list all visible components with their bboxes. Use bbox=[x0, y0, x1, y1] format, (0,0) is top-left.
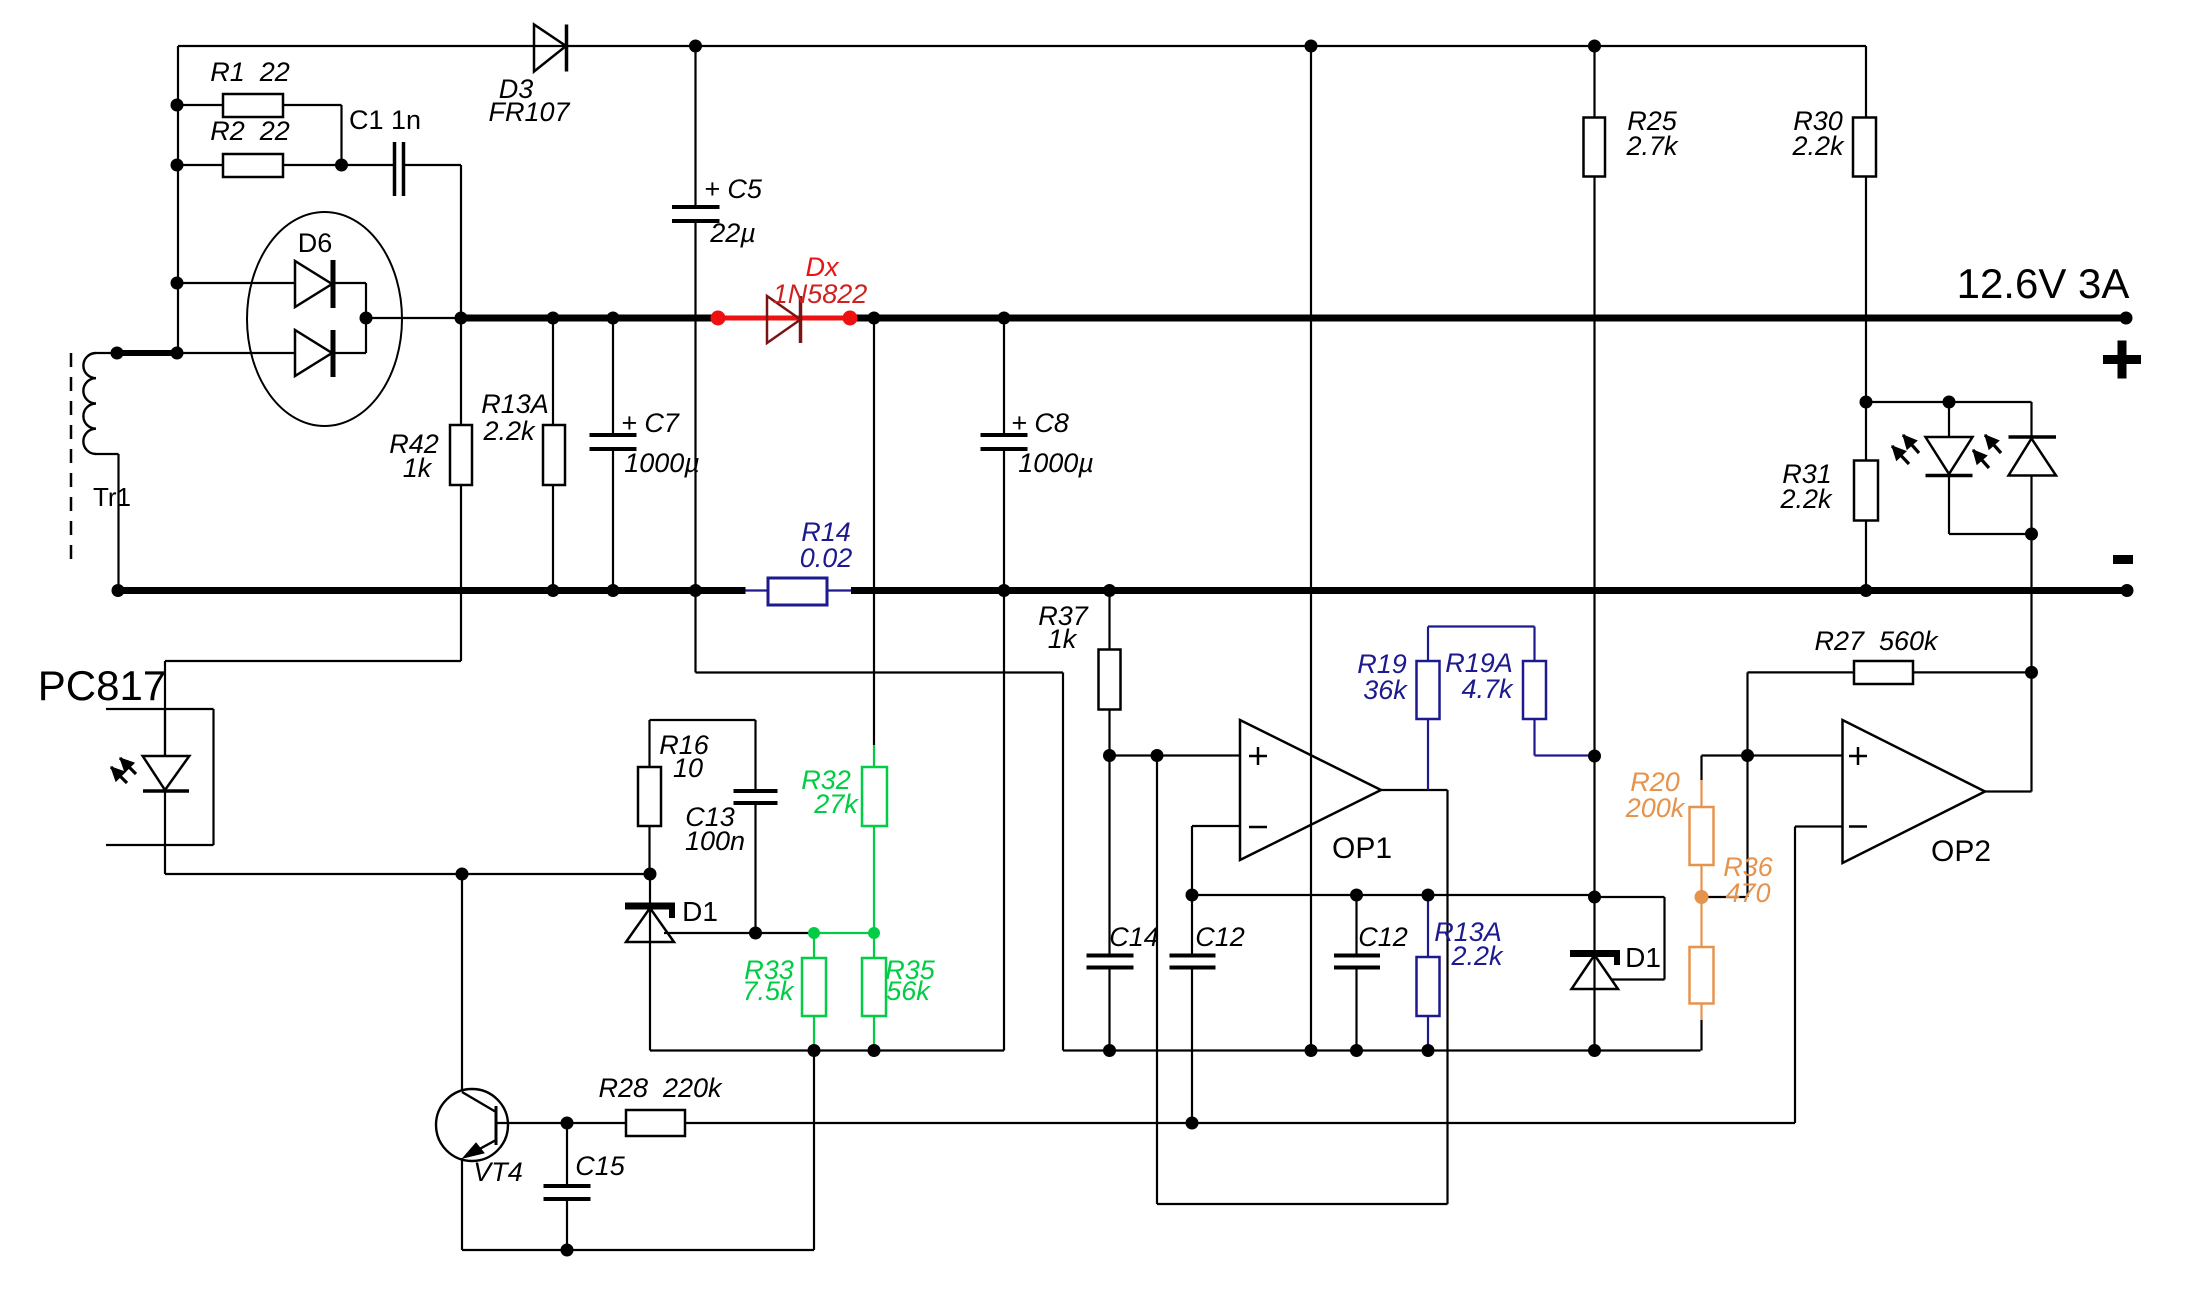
svg-text:C12: C12 bbox=[1358, 922, 1408, 952]
svg-text:0.02: 0.02 bbox=[800, 543, 853, 573]
svg-text:22µ: 22µ bbox=[709, 218, 756, 248]
svg-text:R1 22: R1 22 bbox=[210, 57, 290, 87]
svg-text:1k: 1k bbox=[1048, 624, 1078, 654]
svg-text:R13A: R13A bbox=[481, 389, 549, 419]
svg-text:D1: D1 bbox=[682, 896, 718, 927]
svg-text:C12: C12 bbox=[1195, 922, 1245, 952]
svg-text:C1 1n: C1 1n bbox=[349, 105, 421, 135]
svg-text:56k: 56k bbox=[886, 976, 931, 1006]
svg-text:FR107: FR107 bbox=[488, 97, 570, 127]
svg-text:4.7k: 4.7k bbox=[1461, 674, 1514, 704]
svg-text:+ C5: + C5 bbox=[704, 174, 763, 204]
svg-text:OP2: OP2 bbox=[1931, 835, 1991, 868]
svg-text:1000µ: 1000µ bbox=[1018, 448, 1094, 478]
svg-text:12.6V 3A: 12.6V 3A bbox=[1957, 260, 2130, 307]
svg-text:10: 10 bbox=[673, 753, 703, 783]
svg-text:D1: D1 bbox=[1625, 942, 1661, 973]
svg-text:Dx: Dx bbox=[806, 252, 840, 282]
svg-text:7.5k: 7.5k bbox=[742, 976, 795, 1006]
svg-text:R27 560k: R27 560k bbox=[1814, 626, 1939, 656]
svg-text:36k: 36k bbox=[1363, 675, 1408, 705]
svg-text:C14: C14 bbox=[1109, 922, 1159, 952]
svg-text:470: 470 bbox=[1725, 878, 1770, 908]
svg-text:2.2k: 2.2k bbox=[1779, 484, 1833, 514]
svg-text:27k: 27k bbox=[813, 789, 859, 819]
svg-text:D6: D6 bbox=[298, 228, 333, 258]
svg-text:R2 22: R2 22 bbox=[210, 116, 290, 146]
svg-text:100n: 100n bbox=[685, 826, 745, 856]
svg-text:R28 220k: R28 220k bbox=[598, 1073, 723, 1103]
svg-text:+ C7: + C7 bbox=[621, 408, 680, 438]
svg-text:C15: C15 bbox=[575, 1151, 626, 1181]
svg-text:2.7k: 2.7k bbox=[1625, 131, 1679, 161]
svg-text:+ C8: + C8 bbox=[1011, 408, 1069, 438]
svg-text:1k: 1k bbox=[403, 453, 433, 483]
svg-text:VT4: VT4 bbox=[473, 1157, 523, 1187]
svg-text:2.2k: 2.2k bbox=[1450, 941, 1504, 971]
svg-text:200k: 200k bbox=[1625, 793, 1686, 823]
svg-text:2.2k: 2.2k bbox=[1791, 131, 1845, 161]
svg-text:1N5822: 1N5822 bbox=[773, 279, 868, 309]
svg-text:Tr1: Tr1 bbox=[93, 482, 131, 512]
svg-text:OP1: OP1 bbox=[1332, 832, 1392, 865]
svg-text:2.2k: 2.2k bbox=[482, 416, 536, 446]
svg-text:1000µ: 1000µ bbox=[624, 448, 700, 478]
svg-text:PC817: PC817 bbox=[38, 662, 166, 709]
